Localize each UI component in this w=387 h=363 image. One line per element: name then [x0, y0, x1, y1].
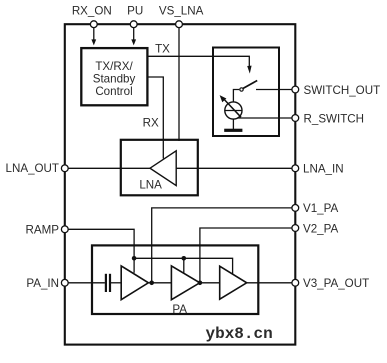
junction dot V2 on signal — [198, 281, 203, 286]
svg-text:Standby: Standby — [93, 73, 136, 86]
wire TX from control to switch box with arrow — [149, 56, 252, 73]
stub to amp A1 — [133, 258, 135, 273]
arrow RX_ON into control block — [91, 28, 96, 46]
pin LNA_OUT — [61, 165, 68, 172]
svg-text:PA_IN: PA_IN — [26, 277, 59, 290]
svg-text:VS_LNA: VS_LNA — [159, 5, 204, 18]
switch S1 moving contact — [233, 81, 257, 102]
bias bus wire — [134, 258, 233, 274]
pin V1_PA — [292, 205, 299, 212]
stub to amp A2 — [183, 258, 185, 273]
wire V2_PA — [200, 228, 295, 283]
outer IC boundary box — [65, 24, 295, 344]
capacitor C1 — [106, 274, 110, 292]
junction dot bus-A1 — [132, 256, 137, 261]
svg-text:ybx8.cn: ybx8.cn — [206, 325, 273, 343]
wire A3 to V3_PA_OUT — [247, 282, 296, 284]
amplifier A1 — [121, 266, 148, 300]
control block U1 TX/RX/Standby Control — [81, 48, 147, 105]
wire PA_IN to capacitor — [65, 282, 105, 284]
junction dot V1 on signal — [149, 281, 154, 286]
pin RX_ON — [90, 21, 97, 28]
amplifier A2 — [171, 266, 199, 300]
pin R_SWITCH — [292, 115, 299, 122]
pin RAMP — [61, 226, 68, 233]
svg-text:LNA_IN: LNA_IN — [303, 163, 344, 176]
switch block box — [213, 48, 279, 137]
pin PU — [130, 21, 137, 28]
svg-text:V3_PA_OUT: V3_PA_OUT — [303, 277, 369, 290]
svg-text:LNA: LNA — [139, 179, 162, 192]
LNA amplifier triangle — [150, 151, 176, 186]
svg-text:RX: RX — [143, 117, 159, 130]
wire A2 to A3 — [200, 282, 220, 284]
wire V1_PA — [152, 208, 296, 283]
wire RAMP to bias bus — [65, 229, 134, 258]
wire R1 to ground — [232, 119, 234, 129]
svg-text:LNA_OUT: LNA_OUT — [6, 162, 59, 175]
wire capacitor to A1 — [111, 282, 121, 284]
wire R1 to R_SWITCH pin — [238, 117, 296, 119]
svg-text:Control: Control — [95, 85, 132, 98]
LNA block box — [121, 140, 198, 196]
svg-text:V2_PA: V2_PA — [303, 222, 339, 235]
wire switch fixed contact to SWITCH_OUT — [256, 89, 295, 91]
amplifier A3 — [220, 266, 247, 299]
wire LNA_OUT — [65, 167, 150, 169]
pin PA_IN — [61, 279, 68, 286]
pin V2_PA — [292, 225, 299, 232]
pin V3_PA_OUT — [292, 279, 299, 286]
pin VS_LNA — [176, 21, 183, 28]
svg-text:RAMP: RAMP — [26, 224, 60, 237]
svg-text:TX: TX — [155, 43, 170, 56]
wire VS_LNA down to LNA block — [178, 27, 180, 141]
wire LNA_IN — [176, 167, 295, 169]
ground — [224, 129, 242, 132]
pin SWITCH_OUT — [292, 86, 299, 93]
junction dot bus-A2 — [182, 256, 187, 261]
svg-text:V1_PA: V1_PA — [303, 202, 339, 215]
arrow PU into control block — [131, 28, 136, 46]
svg-text:RX_ON: RX_ON — [72, 5, 112, 18]
variable resistor R1 (circle with chord and arrow) — [220, 95, 242, 119]
wire RX from control to LNA block — [149, 77, 164, 159]
svg-text:R_SWITCH: R_SWITCH — [304, 112, 365, 125]
svg-text:TX/RX/: TX/RX/ — [95, 60, 133, 73]
svg-text:PU: PU — [127, 5, 143, 18]
svg-text:PA: PA — [172, 303, 187, 316]
wire A1 to A2 — [148, 282, 171, 284]
pin LNA_IN — [292, 165, 299, 172]
svg-text:SWITCH_OUT: SWITCH_OUT — [304, 84, 381, 97]
PA block box — [92, 245, 258, 314]
